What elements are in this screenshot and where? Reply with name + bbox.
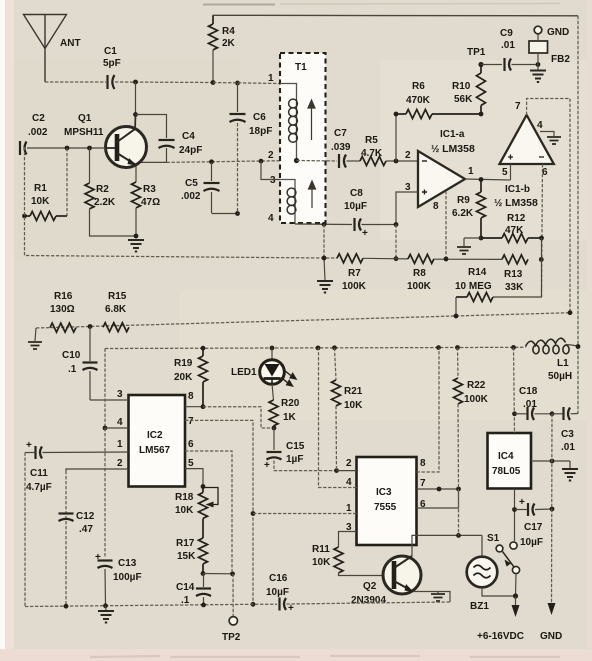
wire: bottom ground bus — [25, 604, 277, 606]
svg-text:1: 1 — [346, 503, 352, 514]
wire: pin6-7 node down to collector line — [458, 489, 460, 535]
wire: R8 to R13 — [434, 258, 502, 260]
svg-text:C10: C10 — [62, 350, 81, 361]
wire: between R7 and R8 — [363, 257, 408, 260]
svg-text:R14: R14 — [468, 267, 487, 278]
node: R2/R3 ground joint — [134, 234, 139, 239]
resistor R17 15K — [199, 538, 208, 574]
svg-text:6: 6 — [188, 439, 194, 450]
svg-text:R15: R15 — [108, 291, 127, 302]
node: output/R9 junction — [479, 177, 484, 182]
node: pin4/ground column — [322, 222, 327, 227]
svg-text:R2: R2 — [96, 184, 109, 195]
node: R6 left — [394, 112, 399, 117]
wire: R6 left vertical — [395, 114, 397, 161]
node: base/R2 tap — [87, 146, 92, 151]
capacitor C6 18pF — [230, 83, 246, 214]
svg-text:+: + — [362, 228, 368, 239]
ground below FB2 — [537, 65, 539, 71]
node: sub bus IC3 pin4 column — [316, 346, 321, 351]
node: pin7 column / IC3 pin1 line — [251, 511, 256, 516]
svg-text:R3: R3 — [143, 184, 156, 195]
svg-text:R7: R7 — [348, 268, 361, 279]
transistor Q1 MPSH11 — [106, 127, 147, 168]
wire: op-amp pin3 line — [396, 192, 418, 225]
resistor R7 100K — [337, 254, 363, 263]
wire: R1 right vertical — [66, 148, 68, 216]
svg-text:100K: 100K — [464, 394, 489, 405]
wire: IC2 pin5 to R18 — [185, 469, 203, 487]
svg-text:R12: R12 — [507, 213, 526, 224]
resistor R8 100K — [408, 254, 434, 263]
node: L1 right on edge bus — [576, 344, 581, 349]
svg-text:BZ1: BZ1 — [470, 601, 489, 612]
node: R16/R15 junction (C10 tap) — [88, 324, 93, 329]
svg-text:5pF: 5pF — [103, 58, 121, 69]
inductor L1 50uH — [526, 338, 579, 354]
svg-text:4: 4 — [346, 477, 352, 488]
wire: C7 to R5 — [347, 160, 361, 162]
wire: IC4 bottom pin down to S1 — [514, 489, 516, 542]
GND terminal (top right) — [537, 34, 539, 41]
resistor R20 1K — [269, 400, 278, 428]
svg-text:130Ω: 130Ω — [50, 304, 75, 315]
node: C17 right / gnd-return — [550, 507, 555, 512]
svg-text:IC1-b: IC1-b — [505, 184, 530, 195]
svg-text:C12: C12 — [76, 511, 95, 522]
svg-text:R8: R8 — [413, 268, 426, 279]
svg-text:C5: C5 — [185, 178, 198, 189]
svg-text:R13: R13 — [504, 269, 523, 280]
right margin tint — [587, 0, 592, 649]
svg-text:10K: 10K — [344, 400, 363, 411]
wire: sub bus left drop to pin4 line — [104, 349, 106, 429]
node: C17 left — [512, 507, 517, 512]
IC3 7555 box — [357, 457, 417, 545]
wire: op-amp pin8 down to R7 line — [445, 191, 447, 259]
svg-text:½ LM358: ½ LM358 — [494, 197, 538, 209]
T1 secondary arrow — [309, 181, 316, 208]
resistor R21 10K (pull-up to sub bus) — [332, 348, 341, 471]
capacitor C3 .01 — [552, 407, 578, 420]
svg-text:R5: R5 — [365, 135, 378, 146]
wire: collector node down to Q1 — [135, 82, 137, 126]
svg-text:20K: 20K — [174, 372, 193, 383]
scan artifact streak at top — [203, 4, 275, 6]
svg-text:C11: C11 — [30, 468, 48, 479]
wire: IC3 pin7 line — [417, 488, 459, 490]
wire: right edge bus — [577, 16, 579, 414]
test point TP2 — [232, 574, 234, 617]
resistor R14 10 MEG — [456, 238, 542, 302]
node: sub bus LED1 tap — [270, 346, 275, 351]
node: R7/R8 junction — [394, 256, 399, 261]
wire: IC3 pin4 up to sub bus — [319, 348, 357, 488]
svg-text:TP2: TP2 — [222, 632, 241, 643]
node: pin7/pin8col — [437, 487, 442, 492]
svg-text:100K: 100K — [342, 281, 367, 292]
wire: LED1 to R20 — [272, 384, 274, 400]
node: R20 bottom / C15 top — [272, 426, 277, 431]
wire: IC1-b pin6 down — [542, 164, 543, 297]
wire: base line from C2 — [27, 147, 106, 149]
op-amp IC1-b (points up) — [500, 115, 554, 164]
node: FB2 bottom junction — [536, 62, 541, 67]
svg-text:GND: GND — [547, 27, 569, 38]
svg-text:C17: C17 — [524, 522, 543, 533]
node: R4 bottom on pin1 line — [211, 80, 216, 85]
svg-text:18pF: 18pF — [249, 126, 272, 137]
wire: TP1 to C9 — [481, 64, 502, 66]
svg-text:C8: C8 — [350, 188, 363, 199]
+V supply arrow — [515, 596, 517, 605]
svg-text:C3: C3 — [561, 429, 574, 440]
wire: IC3 pin1 to ground column — [253, 513, 357, 515]
wire: R9 node to ground — [464, 237, 481, 239]
resistor R16 130ohm — [50, 323, 76, 332]
node: C6 top tap — [235, 81, 240, 86]
svg-text:10 MEG: 10 MEG — [455, 281, 492, 292]
svg-text:Q1: Q1 — [78, 113, 92, 124]
node: TP2 tap — [230, 571, 235, 576]
svg-text:L1: L1 — [557, 358, 569, 369]
resistor R5 4.7K — [360, 157, 386, 166]
wire: IC3 pin8 up to sub bus — [417, 348, 440, 472]
wire: R5 to op-amp pin 2 — [386, 160, 418, 162]
IC1-a non-inverting input mark — [422, 190, 427, 195]
svg-text:½ LM358: ½ LM358 — [431, 143, 475, 155]
node: C14 on bus — [201, 603, 206, 608]
svg-text:C4: C4 — [182, 131, 195, 142]
node: C8/pin3/R7 junction — [394, 222, 399, 227]
svg-text:T1: T1 — [295, 62, 307, 73]
node: C12 on bus — [64, 604, 69, 609]
resistor R1 10K — [24, 212, 67, 221]
svg-text:2.2K: 2.2K — [94, 197, 116, 208]
node: R12 right — [539, 236, 544, 241]
wire: R3 bottom — [135, 208, 137, 238]
svg-text:C1: C1 — [104, 46, 117, 57]
svg-text:LM567: LM567 — [139, 445, 171, 456]
svg-text:R1: R1 — [34, 183, 47, 194]
wire: pin4 node down to R7 line — [323, 224, 325, 257]
node: pin8 / R19 bottom — [201, 404, 206, 409]
svg-text:.01: .01 — [561, 442, 575, 453]
wire: +5V sub bus — [105, 347, 526, 348]
svg-text:6.2K: 6.2K — [452, 208, 474, 219]
node: R7 line / pin4 column — [322, 256, 327, 261]
node: sub bus R21 tap — [332, 345, 337, 350]
node: R6 tap on pin2 — [394, 159, 399, 164]
svg-text:ANT: ANT — [60, 38, 81, 49]
svg-text:78L05: 78L05 — [492, 466, 521, 477]
svg-text:LED1: LED1 — [231, 367, 257, 378]
resistor R10 56K — [477, 65, 486, 115]
svg-text:7: 7 — [420, 478, 426, 489]
node: R8/pin8 junction — [444, 257, 449, 262]
node: C15 line / IC3 pin2 — [334, 468, 339, 473]
wire: IC1-b pin5 stub — [510, 164, 512, 180]
svg-text:IC2: IC2 — [147, 430, 163, 441]
svg-text:10µF: 10µF — [344, 201, 367, 212]
svg-text:C2: C2 — [32, 113, 45, 124]
svg-text:47Ω: 47Ω — [141, 197, 160, 208]
node: R13 right — [539, 257, 544, 262]
antenna ANT — [24, 15, 67, 83]
buzzer BZ1 — [467, 535, 516, 596]
svg-text:2: 2 — [268, 150, 274, 161]
wire: top V+ rail — [213, 14, 579, 17]
node: collector/C4 branch — [133, 112, 138, 117]
wire: Q1 collector stub — [134, 115, 137, 130]
capacitor C15 1uF — [267, 428, 337, 471]
svg-text:MPSH11: MPSH11 — [64, 127, 104, 138]
svg-text:8: 8 — [420, 458, 426, 469]
wire: IC2 pin6 down to TP2 line — [185, 451, 232, 574]
node: C18 line left — [512, 411, 517, 416]
ferrite bead FB2 — [529, 41, 548, 53]
wire: Q2 collector up and right to BZ1 — [412, 535, 482, 556]
node: mid bus right end / pin7 drop — [568, 310, 573, 315]
svg-text:+: + — [95, 552, 101, 563]
svg-text:R10: R10 — [452, 81, 471, 92]
capacitor C7 .039 — [339, 154, 346, 168]
wire: IC4 top pin / sub bus column — [514, 347, 515, 433]
resistor R12 47K — [481, 234, 542, 243]
svg-text:2N3904: 2N3904 — [351, 595, 386, 606]
node: pin4 / C13 column — [103, 426, 108, 431]
capacitor C9 .01 — [505, 58, 512, 71]
svg-text:FB2: FB2 — [551, 54, 570, 65]
wire: C11 left down to bottom bus — [24, 453, 26, 607]
node: T1 pin2 coil joint — [294, 158, 299, 163]
wire: T1 pin3 jog up to pin2 line — [261, 161, 280, 180]
svg-text:470K: 470K — [406, 95, 431, 106]
svg-text:IC4: IC4 — [498, 451, 514, 462]
resistor R11 10K — [334, 547, 383, 576]
resistor R4 2K — [209, 16, 218, 83]
switch S1 — [510, 542, 517, 549]
node: pin7/R22 column — [456, 487, 461, 492]
svg-text:7555: 7555 — [374, 502, 397, 513]
svg-text:1: 1 — [117, 439, 123, 450]
svg-text:2: 2 — [117, 458, 123, 469]
wire: R14 left drop to mid bus — [455, 297, 457, 316]
wire: S1 bottom to supply node — [515, 574, 518, 597]
svg-text:7: 7 — [515, 101, 521, 112]
wire: C8 to pin3 node — [362, 224, 397, 226]
svg-text:S1: S1 — [487, 533, 500, 544]
node: R1 left — [22, 214, 27, 219]
node: pin3 jog tap — [259, 159, 264, 164]
transformer T1 dashed box — [280, 53, 326, 223]
svg-text:47K: 47K — [505, 225, 524, 236]
capacitor C10 .1 — [83, 327, 98, 401]
resistor R13 33K — [502, 255, 528, 264]
node: R17 bottom / C14 top — [201, 571, 206, 576]
svg-text:+: + — [26, 440, 32, 451]
svg-text:2K: 2K — [222, 38, 236, 49]
svg-text:R6: R6 — [412, 81, 425, 92]
svg-text:10K: 10K — [31, 196, 50, 207]
IC1-a inverting input mark — [422, 160, 427, 162]
capacitor C16 10uF (series in bus) — [280, 598, 451, 611]
T1 secondary coil — [280, 180, 296, 225]
svg-text:+6-16VDC: +6-16VDC — [477, 631, 524, 642]
svg-text:2: 2 — [346, 458, 352, 469]
wire: IC2 pin4 stub — [105, 427, 129, 429]
resistor R6 470K — [396, 110, 481, 119]
svg-text:.01: .01 — [523, 399, 537, 410]
transistor Q2 2N3904 — [383, 556, 421, 594]
svg-text:GND: GND — [540, 631, 562, 642]
svg-text:C6: C6 — [253, 112, 266, 123]
wire: TP2 line — [203, 573, 233, 575]
node: C18/C3/gnd-return junction — [550, 411, 555, 416]
capacitor C12 .47 — [59, 514, 74, 522]
wire: C12 column — [65, 471, 67, 606]
node: TP1 — [478, 62, 483, 67]
svg-text:.01: .01 — [501, 40, 515, 51]
wire: C1 to collector node — [115, 81, 213, 84]
svg-text:4: 4 — [117, 417, 123, 428]
wire: IC2 pin3 line to C10 — [90, 399, 129, 401]
svg-text:50µH: 50µH — [548, 371, 572, 382]
capacitor C14 .1 — [196, 574, 211, 606]
svg-text:7: 7 — [188, 416, 194, 427]
svg-text:R19: R19 — [174, 358, 193, 369]
svg-text:3: 3 — [117, 389, 123, 400]
wire: R2 bottom to ground joint — [90, 209, 137, 236]
svg-text:R20: R20 — [281, 398, 300, 409]
svg-text:C14: C14 — [176, 582, 195, 593]
node: IC4 right / gnd-return — [550, 459, 555, 464]
svg-text:.002: .002 — [28, 127, 48, 138]
capacitor C17 10uF — [515, 503, 553, 516]
svg-text:R22: R22 — [467, 380, 486, 391]
wire: T1 pin4 line to C8 — [295, 223, 352, 226]
svg-text:1: 1 — [268, 73, 274, 84]
svg-text:4: 4 — [268, 213, 274, 224]
svg-text:5: 5 — [188, 458, 194, 469]
svg-text:TP1: TP1 — [467, 47, 486, 58]
svg-text:+: + — [288, 603, 294, 614]
svg-text:C16: C16 — [269, 573, 288, 584]
wire: collector node to C4 top — [136, 115, 167, 139]
wire: C4 bottom to emitter line — [139, 148, 167, 162]
wire: IC2 pin8 line — [185, 406, 203, 408]
node: sub bus IC4 column — [511, 345, 516, 350]
wire: IC1-b pin7 to mid bus — [527, 99, 570, 313]
wire: C5 bottom to C6 column — [212, 213, 238, 215]
bottom strip faint print smudges — [90, 656, 560, 657]
wire: pin2 stub — [337, 470, 357, 472]
resistor R22 100K — [454, 348, 463, 490]
svg-text:C15: C15 — [286, 441, 305, 452]
svg-text:8: 8 — [433, 201, 439, 212]
svg-text:33K: 33K — [505, 282, 524, 293]
node: C5/C6 ground column joint — [235, 211, 240, 216]
node: C13 on bus — [103, 603, 108, 608]
node: sub bus R19 tap — [201, 346, 206, 351]
GND return arrowhead — [548, 603, 556, 615]
svg-text:IC3: IC3 — [376, 487, 392, 498]
IC1-b inverting input mark — [539, 156, 544, 158]
node: R18 top — [201, 484, 206, 489]
svg-text:6.8K: 6.8K — [105, 304, 127, 315]
svg-text:+: + — [264, 460, 270, 471]
svg-text:100µF: 100µF — [113, 572, 142, 583]
node: C5 tap — [209, 159, 214, 164]
svg-text:3: 3 — [405, 182, 411, 193]
svg-text:R21: R21 — [344, 386, 363, 397]
resistor R15 6.8K — [103, 323, 129, 332]
svg-text:24pF: 24pF — [179, 145, 202, 156]
svg-text:C7: C7 — [334, 128, 347, 139]
svg-text:R9: R9 — [457, 195, 470, 206]
wire: antenna to C1 — [45, 81, 106, 83]
svg-text:5: 5 — [502, 167, 508, 178]
svg-text:10K: 10K — [312, 557, 331, 568]
svg-text:C9: C9 — [500, 28, 513, 39]
T1 primary coil — [280, 84, 297, 161]
svg-text:2: 2 — [405, 150, 411, 161]
resistor R19 20K — [199, 348, 208, 407]
svg-text:100K: 100K — [407, 281, 432, 292]
svg-text:R11: R11 — [312, 544, 330, 555]
svg-text:10K: 10K — [175, 505, 194, 516]
node: R6 right / R10 bottom — [479, 112, 484, 117]
capacitor C11 4.7uF — [25, 446, 42, 459]
svg-text:4: 4 — [537, 120, 543, 131]
wire: pin3 node down to R7 line — [395, 225, 397, 259]
svg-text:1: 1 — [468, 166, 474, 177]
svg-text:.039: .039 — [331, 142, 351, 153]
wire: IC3 pin6 jog up to pin7 — [417, 489, 459, 508]
wire: emitter line to T1 pin2 (through C5 tap) — [167, 161, 298, 163]
wire: rail left drop to R4 — [212, 14, 215, 17]
wire: C13 column down — [104, 428, 106, 558]
svg-text:IC1-a: IC1-a — [440, 129, 465, 140]
wire: IC2 pin1 line with C11 — [43, 451, 129, 454]
node: base/R1 tap — [65, 146, 70, 151]
ground on bottom bus — [105, 606, 108, 610]
capacitor C2 .002 — [20, 141, 27, 155]
potentiometer R18 10K — [199, 487, 219, 539]
node: C1/collector junction — [133, 80, 138, 85]
T1 primary arrow — [308, 100, 315, 140]
wire: mid V+ bus — [36, 313, 570, 328]
wire: R2 vertical from base — [89, 148, 91, 183]
ground below R3 — [128, 240, 144, 252]
wire: C9 to FB2 node — [512, 64, 539, 66]
bottom margin pink strip — [0, 649, 592, 661]
svg-text:1K: 1K — [283, 412, 297, 423]
ground for IC4 — [569, 461, 571, 468]
ground at mid bus left end — [35, 328, 36, 341]
capacitor C18 .01 — [515, 407, 553, 420]
IC2 LM567 box — [129, 395, 186, 487]
capacitor C1 5pF — [108, 75, 115, 89]
node: sub bus R22 tap — [455, 345, 460, 350]
svg-text:R4: R4 — [222, 26, 235, 37]
svg-text:4.7µF: 4.7µF — [26, 482, 52, 493]
capacitor C5 .002 — [204, 162, 220, 213]
resistor R3 47ohm — [132, 182, 141, 208]
svg-text:3: 3 — [270, 175, 276, 186]
svg-text:.002: .002 — [181, 191, 201, 202]
resistor R9 6.2K — [477, 180, 486, 239]
